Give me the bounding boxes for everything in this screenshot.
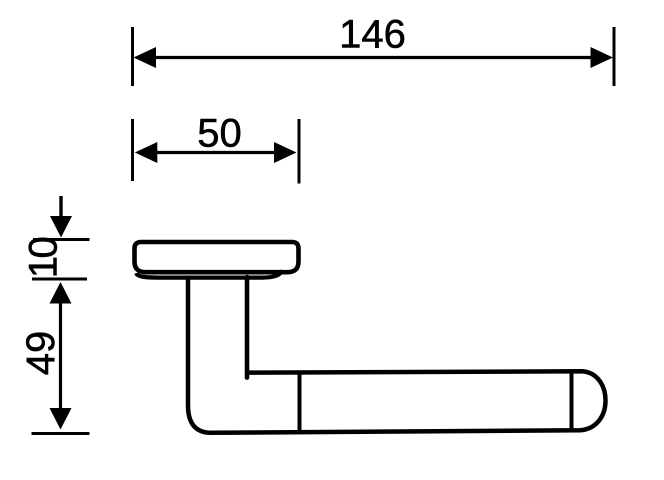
dimension 50: value label "50" — [197, 112, 242, 156]
dimension 50: right extension line — [298, 119, 301, 184]
dimension 49: value label "49" (rotated) — [19, 331, 63, 376]
dimension 146: value label "146" — [339, 13, 406, 57]
svg-text:50: 50 — [197, 112, 242, 156]
lever neck left edge, bottom bend and grip bottom edge with end cap — [188, 276, 606, 433]
dimension 146: left extension line — [131, 27, 134, 86]
dimension 10: bottom tick line (rose bottom level) — [32, 278, 87, 281]
svg-text:49: 49 — [19, 331, 63, 376]
dimension 146: right extension line — [613, 27, 616, 86]
handle rose bottom lip curve — [136, 271, 282, 278]
dimension 50: left extension line — [131, 119, 134, 181]
dimension 50: dimension line with arrowheads — [135, 142, 297, 163]
grip joint line at neck — [298, 372, 302, 431]
dimension 10: top tick line (rose top level) — [33, 238, 90, 241]
dimension 10: top pointer line with down arrowhead — [50, 196, 72, 238]
dimension 49: bottom tick line (grip bottom level) — [32, 432, 90, 435]
dimension 10: value label "10" (rotated) — [22, 238, 66, 279]
grip end-cap joint line — [570, 371, 574, 430]
svg-text:146: 146 — [339, 13, 406, 57]
lever neck right edge with hooked end — [245, 277, 250, 378]
handle rose (escutcheon) outline — [135, 242, 299, 272]
svg-text:10: 10 — [22, 238, 66, 279]
dimension 146: dimension line with arrowheads — [134, 47, 614, 68]
dimension 49: dimension line with arrowheads — [50, 282, 72, 430]
